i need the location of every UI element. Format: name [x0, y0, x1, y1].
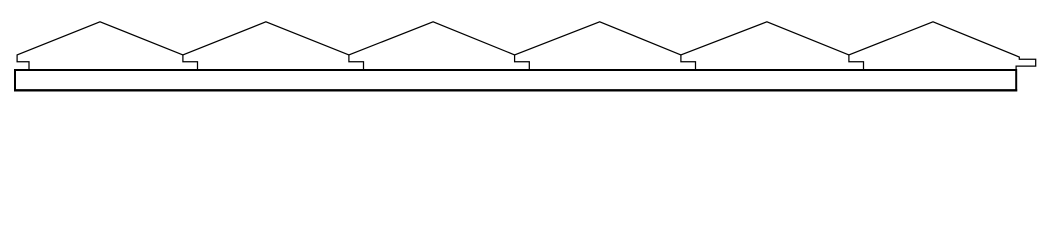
technical cross-section drawing: 6 overlapping bevel boards on a base board [0, 0, 1042, 112]
board 3 [349, 22, 515, 70]
base board top edge [14, 69, 1016, 71]
board 6 (right piece with end cap) [849, 22, 1036, 70]
board 5 [681, 22, 849, 70]
board 1 (left piece with ledge foot) [17, 22, 183, 70]
base board bottom edge [14, 89, 1017, 91]
base board left edge [14, 69, 16, 91]
board 4 [515, 22, 681, 70]
base board right edge [1015, 69, 1017, 91]
board 2 [183, 22, 349, 70]
